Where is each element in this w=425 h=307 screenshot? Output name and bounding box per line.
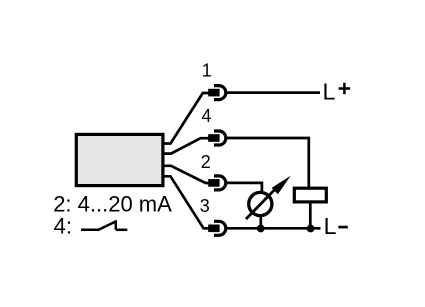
sensor box <box>76 134 163 185</box>
svg-text:L: L <box>324 213 337 239</box>
switch symbol for output 4 <box>81 220 127 230</box>
wire pin 1 to L+ <box>225 91 320 94</box>
junction load/bottom rail <box>307 225 315 233</box>
node L- <box>324 213 348 239</box>
node L+ <box>323 78 351 104</box>
connector pin 4 <box>208 131 226 145</box>
wire from box to pin 4 <box>163 138 209 153</box>
svg-text:1: 1 <box>202 60 212 80</box>
wire pin 3 / bottom rail to L- <box>225 227 321 230</box>
svg-text:4: 4 <box>201 106 211 126</box>
wire from box to pin 1 <box>163 93 209 144</box>
wire meter to bottom rail <box>259 214 262 228</box>
wire load to bottom rail <box>309 201 312 228</box>
meter arrow head <box>272 176 291 195</box>
meter M1 <box>249 192 272 215</box>
svg-text:2: 4...20 mA: 2: 4...20 mA <box>53 191 172 216</box>
wire pin 2 to meter <box>225 183 262 196</box>
connector pin 2 <box>208 176 226 190</box>
svg-text:4:: 4: <box>54 214 72 239</box>
svg-text:3: 3 <box>200 196 210 216</box>
svg-text:L: L <box>323 78 336 104</box>
meter needle <box>246 184 280 219</box>
connector pin 3 <box>208 221 226 235</box>
connector pin 1 <box>208 86 226 100</box>
wire from box to pin 2 <box>163 166 209 183</box>
junction meter/bottom rail <box>257 225 265 233</box>
load resistor <box>294 188 326 202</box>
wire from box to pin 3 <box>163 176 209 228</box>
svg-text:2: 2 <box>201 152 211 172</box>
wire pin 4 to load <box>225 138 309 190</box>
